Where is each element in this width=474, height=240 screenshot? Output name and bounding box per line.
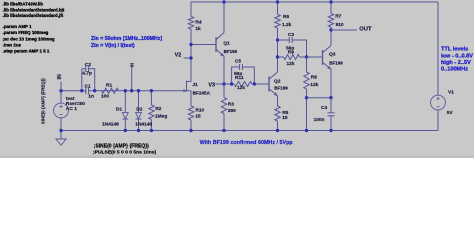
- node V3: [222, 82, 225, 85]
- svg-text:Q2: Q2: [274, 78, 281, 84]
- svg-text:R4: R4: [195, 20, 201, 26]
- svg-text:4.7p: 4.7p: [82, 71, 92, 77]
- bottom edge shading: [0, 156, 474, 158]
- transistor J1 drain lead: [187, 81, 192, 83]
- node C2 left: [80, 89, 83, 92]
- svg-text:12k: 12k: [287, 61, 295, 67]
- node R2 rail: [150, 129, 153, 132]
- wire OUT stub: [331, 29, 357, 31]
- node C4 rail: [329, 129, 332, 132]
- wire R11 lead left: [232, 83, 234, 85]
- capacitor C4 plate top: [328, 112, 335, 114]
- svg-text:J1: J1: [192, 82, 198, 88]
- wire IN stub: [60, 82, 62, 91]
- source test minus: [59, 114, 62, 116]
- node gnd rail src: [59, 129, 62, 132]
- ground: [56, 139, 66, 145]
- wire Q3 emitter to R8 column: [307, 97, 332, 99]
- node R6 rail: [276, 0, 279, 3]
- svg-text:Zin = V(in) / I(test): Zin = V(in) / I(test): [91, 43, 135, 49]
- resistor R5: [275, 106, 280, 121]
- wire R7 top lead: [330, 2, 332, 14]
- svg-text:R11: R11: [235, 75, 244, 81]
- transistor Q2 base bar: [268, 77, 270, 92]
- svg-text:5V: 5V: [447, 110, 454, 116]
- svg-text:BF199: BF199: [224, 49, 238, 54]
- svg-text:.lib libs/BAT43W.lib: .lib libs/BAT43W.lib: [3, 1, 44, 6]
- svg-text:12k: 12k: [237, 85, 245, 91]
- svg-text:R10: R10: [195, 107, 204, 113]
- resistor R2: [149, 105, 154, 120]
- transistor Q3 emitter diag: [323, 62, 332, 69]
- wire input line right: [89, 90, 187, 92]
- wire C5 bridge left: [232, 67, 240, 84]
- wire R3 top lead: [223, 84, 225, 98]
- svg-text:360: 360: [228, 108, 236, 114]
- wire ground stub: [60, 131, 62, 140]
- capacitor C1 plate left: [85, 87, 87, 94]
- resistor R1: [102, 88, 119, 93]
- node Q1 collector rail: [222, 0, 225, 3]
- wire C2 bridge right: [89, 69, 95, 91]
- transistor Q2 emitter lead: [277, 96, 279, 106]
- transistor Q2 emitter diag: [269, 89, 278, 96]
- svg-text:high - 2..5V: high - 2..5V: [441, 60, 471, 66]
- capacitor C4 bottom lead: [330, 116, 332, 131]
- wire R4 to J1 drain: [190, 29, 192, 82]
- svg-text:Q1: Q1: [223, 40, 230, 46]
- svg-text:SINE(0 {AMP} {FREQ}): SINE(0 {AMP} {FREQ}): [41, 78, 46, 124]
- svg-text:R9: R9: [288, 49, 294, 55]
- wire C3 branch left: [278, 39, 290, 41]
- diode D1 cathode bar: [122, 118, 128, 120]
- transistor Q1 emitter arrow: [221, 54, 224, 56]
- svg-text:V1: V1: [448, 90, 454, 96]
- svg-text:OUT: OUT: [359, 27, 372, 33]
- wire right supply drop: [437, 2, 439, 95]
- diode D2 anode lead: [138, 91, 140, 113]
- wire C3 branch right: [292, 40, 306, 57]
- node R11 right: [253, 82, 256, 85]
- svg-text:With BF199 confirmed 60MHz / 5: With BF199 confirmed 60MHz / 5Vpp: [200, 140, 294, 146]
- svg-text:;PULSE(0 5 0 0 0 5ns 10ns): ;PULSE(0 5 0 0 0 5ns 10ns): [93, 150, 156, 156]
- svg-text:;SINE(0 {AMP} {FREQ}): ;SINE(0 {AMP} {FREQ}): [94, 143, 149, 149]
- svg-text:.param FREQ 100meg: .param FREQ 100meg: [3, 30, 49, 35]
- svg-text:100n: 100n: [314, 117, 325, 123]
- node D1 rail: [124, 129, 127, 132]
- capacitor C3 plate right: [291, 37, 293, 43]
- svg-text:BF245A: BF245A: [193, 90, 211, 95]
- svg-text:R5: R5: [282, 110, 288, 116]
- diode D1 body: [122, 113, 128, 119]
- wire R8 top lead: [306, 57, 308, 72]
- capacitor C5 plate right: [241, 64, 243, 70]
- wire R10 bottom lead: [190, 120, 192, 131]
- svg-text:Zin = 50ohm [1MHz..100MHz]: Zin = 50ohm [1MHz..100MHz]: [91, 36, 162, 42]
- svg-text:BF199: BF199: [274, 86, 288, 91]
- wire R3 bottom lead: [223, 114, 225, 131]
- voltage source test: [54, 103, 69, 118]
- svg-text:.param AMP 1: .param AMP 1: [3, 24, 33, 29]
- capacitor C4 plate bottom: [328, 115, 335, 117]
- wire R2 bottom lead: [150, 120, 152, 131]
- transistor Q1 base bar: [215, 37, 217, 52]
- svg-text:1.2k: 1.2k: [282, 22, 292, 28]
- resistor R3: [221, 98, 226, 114]
- node stub: [130, 89, 133, 92]
- resistor R10: [188, 106, 193, 120]
- diode D2 cathode bar: [136, 118, 142, 120]
- wire R9 lead right: [300, 56, 307, 58]
- svg-text:C1: C1: [85, 84, 91, 90]
- diode D1 cathode lead: [124, 119, 126, 131]
- svg-text:R2: R2: [155, 106, 161, 112]
- svg-text:12k: 12k: [310, 82, 318, 88]
- svg-text:R3: R3: [228, 102, 234, 108]
- wire stub label node: [131, 67, 133, 91]
- svg-text:910: 910: [336, 22, 344, 28]
- resistor R8: [304, 72, 309, 89]
- node D2 top: [137, 89, 140, 92]
- transistor J1 gate arrow: [183, 89, 186, 92]
- svg-text:Q3: Q3: [329, 51, 336, 57]
- node R7 rail: [329, 0, 332, 3]
- source V1 minus: [436, 106, 439, 108]
- wire source top lead: [60, 91, 62, 103]
- wire R4 top lead: [190, 2, 192, 17]
- svg-text:D1: D1: [116, 106, 122, 112]
- wire R11 lead right: [252, 83, 254, 85]
- svg-text:C5: C5: [235, 59, 241, 65]
- wire V1 to ground rail: [437, 110, 439, 131]
- transistor Q1 emitter lead: [223, 56, 225, 84]
- transistor Q1 collector lead: [223, 2, 225, 33]
- transistor J1 gate bar: [186, 81, 188, 92]
- svg-text:1k: 1k: [195, 26, 201, 32]
- svg-text:1Meg: 1Meg: [155, 114, 167, 120]
- wire R9 lead left: [278, 56, 284, 58]
- node R11 left: [230, 82, 233, 85]
- svg-text:V2: V2: [175, 52, 182, 58]
- wire V3 stub: [216, 83, 225, 85]
- diode D2 cathode lead: [138, 119, 140, 131]
- diode D1 anode lead: [124, 91, 126, 113]
- resistor R7: [328, 14, 333, 28]
- wire R2 top lead: [150, 91, 152, 105]
- svg-text:R1: R1: [106, 82, 112, 88]
- wire top supply rail: [191, 1, 438, 3]
- svg-text:1N4148: 1N4148: [102, 122, 119, 128]
- wire Q1 base: [191, 44, 216, 46]
- wire V3 line: [224, 83, 232, 85]
- svg-text:15: 15: [282, 115, 288, 121]
- svg-text:IN: IN: [57, 74, 63, 79]
- svg-text:.lib libs/standard/standard.jf: .lib libs/standard/standard.jft: [3, 13, 64, 18]
- wire R5 bottom lead: [277, 121, 279, 131]
- svg-text:;ac dec 10 1meg 100meg: ;ac dec 10 1meg 100meg: [3, 36, 55, 41]
- transistor Q3 base bar: [322, 50, 324, 65]
- svg-text:TTL levels: TTL levels: [441, 47, 468, 53]
- svg-text:15: 15: [195, 113, 201, 119]
- wire Q3 base: [307, 56, 323, 58]
- node OUT: [329, 28, 332, 31]
- resistor R11: [234, 82, 252, 87]
- capacitor C4 top lead: [330, 98, 332, 113]
- node Q3 emitter: [329, 96, 332, 99]
- svg-text:low - 0..0.8V: low - 0..0.8V: [441, 53, 473, 59]
- svg-text:.tran 2us: .tran 2us: [3, 43, 22, 48]
- voltage source V1: [431, 95, 446, 110]
- node D2 rail: [137, 129, 140, 132]
- wire R6 to C3 node: [277, 28, 279, 57]
- wire R7 bottom lead: [330, 27, 332, 30]
- node R9 left: [276, 55, 279, 58]
- wire source bottom lead: [60, 118, 62, 131]
- svg-text:IN: IN: [129, 63, 134, 67]
- node IN junction: [59, 89, 62, 92]
- wire input line left: [61, 90, 86, 92]
- svg-text:R7: R7: [335, 14, 341, 20]
- node C3 left: [276, 38, 279, 41]
- transistor Q1 collector diag: [216, 33, 224, 40]
- wire C2 bridge left: [82, 69, 86, 91]
- capacitor C3 plate left: [288, 37, 290, 43]
- wire R6 top lead: [277, 2, 279, 15]
- svg-text:C3: C3: [288, 32, 294, 38]
- node C2 right: [93, 89, 96, 92]
- node R10 rail: [189, 129, 192, 132]
- svg-text:C2: C2: [85, 62, 91, 68]
- node D1 top: [124, 89, 127, 92]
- node R8 rail: [305, 129, 308, 132]
- transistor Q3 collector lead: [330, 30, 332, 46]
- source test plus: [59, 105, 62, 108]
- svg-text:.lib libs/standard/standard.bj: .lib libs/standard/standard.bjt: [3, 7, 65, 12]
- transistor Q2 collector diag: [269, 72, 278, 79]
- capacitor C5 plate left: [239, 64, 241, 70]
- svg-text:BF199: BF199: [329, 61, 343, 66]
- svg-text:V3: V3: [208, 83, 215, 89]
- diode D2 body: [136, 113, 142, 119]
- svg-text:1n: 1n: [88, 94, 94, 100]
- node R8 ground tap: [305, 96, 308, 99]
- resistor R9: [284, 55, 300, 60]
- node R5 rail: [276, 129, 279, 132]
- capacitor C2 plate right: [88, 66, 90, 72]
- transistor Q3 collector diag: [323, 46, 332, 53]
- svg-text:R8: R8: [311, 75, 317, 81]
- svg-text:C4: C4: [321, 105, 327, 111]
- wire J1 source down: [190, 91, 192, 106]
- svg-text:AC 1: AC 1: [66, 106, 77, 112]
- node R3 rail: [222, 129, 225, 132]
- source V1 plus: [436, 97, 439, 100]
- transistor Q2 emitter arrow: [274, 93, 277, 95]
- wire R8 bottom lead: [306, 89, 308, 131]
- transistor Q2 collector lead: [277, 57, 279, 72]
- transistor Q3 emitter lead: [330, 69, 332, 97]
- resistor R6: [275, 15, 280, 29]
- node V2: [189, 56, 192, 59]
- resistor R4: [188, 17, 193, 30]
- wire V2 stub: [184, 57, 192, 59]
- capacitor C2 plate left: [85, 66, 87, 72]
- node Q1 base junction: [189, 43, 192, 46]
- node R2 top: [150, 89, 153, 92]
- node R9 right: [305, 55, 308, 58]
- transistor J1 source lead: [187, 90, 192, 92]
- wire V3 to Q2: [254, 83, 269, 85]
- svg-text:R6: R6: [283, 14, 289, 20]
- wire C5 bridge right: [242, 67, 254, 84]
- transistor Q1 emitter diag: [216, 49, 224, 56]
- svg-text:D2: D2: [136, 106, 142, 112]
- svg-text:1N4148: 1N4148: [135, 122, 152, 128]
- wire bottom ground rail: [61, 130, 438, 132]
- transistor Q3 emitter arrow: [328, 67, 331, 69]
- capacitor C1 plate right: [88, 87, 90, 94]
- svg-text:.step param AMP 1 5 1: .step param AMP 1 5 1: [3, 49, 50, 54]
- svg-text:0..100MHz: 0..100MHz: [441, 67, 468, 73]
- svg-text:100: 100: [101, 93, 109, 99]
